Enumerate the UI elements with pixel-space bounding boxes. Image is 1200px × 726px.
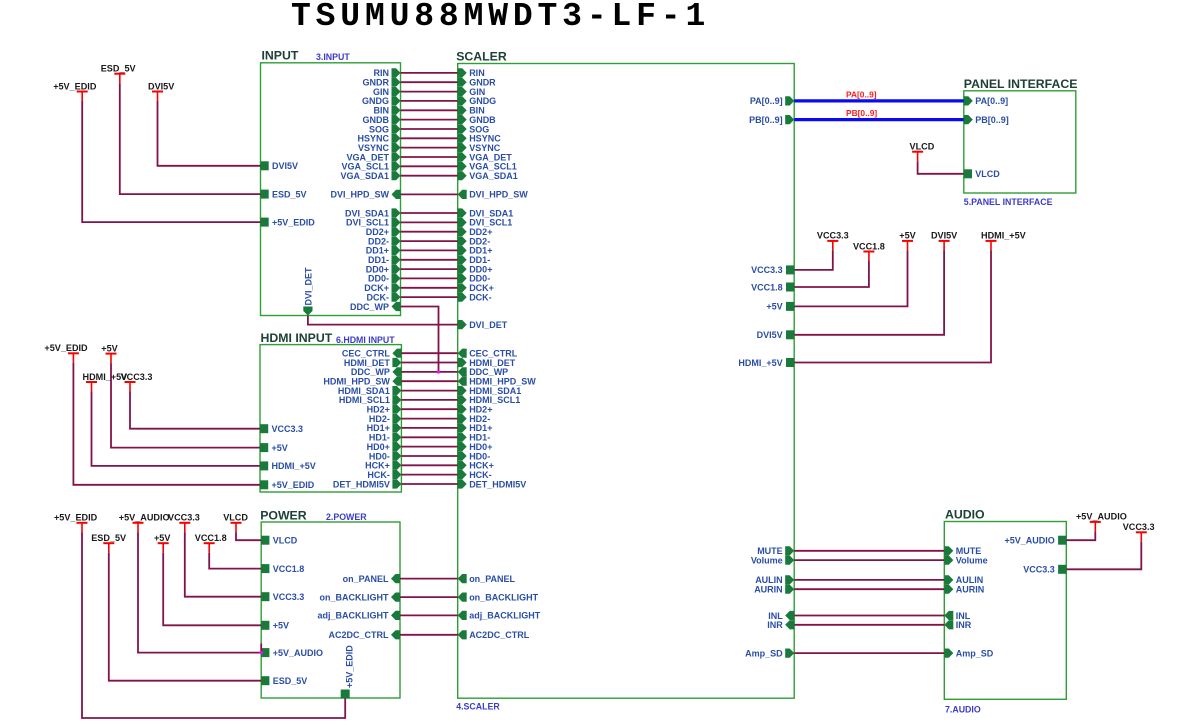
sheet entry on_BACKLIGHT (POWER right) [320, 592, 401, 602]
sheet entry VGA_DET (INPUT right) [346, 152, 400, 162]
svg-text:adj_BACKLIGHT: adj_BACKLIGHT [317, 611, 389, 621]
svg-text:TSUMU88MWDT3-LF-1: TSUMU88MWDT3-LF-1 [291, 0, 710, 35]
svg-text:ESD_5V: ESD_5V [101, 64, 136, 74]
sheet entry DET_HDMI5V (SCALER left) [458, 479, 527, 489]
sheet entry DD1- (SCALER left) [458, 255, 491, 265]
sheet entry DDC_WP (SCALER left) [458, 367, 509, 377]
sheet entry Volume (AUDIO left) [944, 555, 987, 565]
svg-text:+5V_EDID: +5V_EDID [53, 81, 97, 91]
wire DVI_SCL1 [401, 221, 458, 223]
wire VLCD to POWER [236, 532, 261, 540]
wire DVI5V to INPUT [158, 101, 261, 166]
svg-text:ESD_5V: ESD_5V [91, 533, 126, 543]
sheet entry VGA_SDA1 (SCALER left) [458, 171, 518, 181]
sheet entry Amp_SD (SCALER right) [745, 648, 794, 658]
wire HD1+ [401, 427, 457, 429]
svg-text:+5V_AUDIO: +5V_AUDIO [119, 513, 170, 523]
sheet entry AULIN (SCALER right) [755, 575, 794, 585]
svg-text:DVI5V: DVI5V [931, 231, 957, 241]
sheet entry on_BACKLIGHT (SCALER left) [458, 592, 539, 602]
power port DVI5V [148, 81, 174, 101]
sheet entry INL (SCALER right) [768, 611, 794, 621]
sheet entry HD1- (SCALER left) [458, 433, 491, 443]
bus PA[0..9] [794, 99, 964, 102]
wire INR [794, 624, 944, 626]
wire AULIN [794, 579, 944, 581]
wire DCK- [401, 296, 458, 298]
sheet entry RIN (INPUT right) [374, 68, 401, 78]
svg-text:VGA_SDA1: VGA_SDA1 [469, 171, 518, 181]
sheet entry VSYNC (INPUT right) [358, 143, 401, 153]
svg-text:Amp_SD: Amp_SD [745, 648, 783, 658]
sheet entry HDMI_HPD_SW (HDMI INPUT right) [323, 377, 401, 387]
sheet entry +5V (SCALER right) [766, 302, 794, 312]
svg-text:SCALER: SCALER [456, 49, 507, 63]
sheet entry VSYNC (SCALER left) [458, 143, 501, 153]
junction DDC_WP node [437, 370, 440, 373]
sheet symbol AUDIO (7.AUDIO) [944, 507, 1066, 714]
wire VCC1.8 to POWER [209, 553, 261, 569]
junction +5V_AUDIO node [260, 651, 263, 654]
sheet entry VGA_SCL1 (SCALER left) [458, 162, 517, 172]
sheet entry HCK+ (HDMI INPUT right) [365, 461, 401, 471]
power port VLCD [223, 513, 248, 533]
svg-text:+5V_AUDIO: +5V_AUDIO [1076, 512, 1127, 522]
power port VLCD [910, 142, 935, 162]
sheet entry DVI_SDA1 (SCALER left) [458, 208, 514, 218]
sheet entry HDMI_DET (SCALER left) [458, 358, 516, 368]
svg-text:HDMI_+5V: HDMI_+5V [272, 461, 316, 471]
wire HDMI_HPD_SW [401, 380, 457, 382]
sheet symbol HDMI INPUT (6.HDMI INPUT) [260, 331, 401, 492]
svg-text:+5V: +5V [101, 343, 117, 353]
svg-text:+5V: +5V [272, 443, 288, 453]
sheet entry INR (AUDIO left) [944, 620, 972, 630]
svg-text:PANEL INTERFACE: PANEL INTERFACE [964, 77, 1078, 91]
sheet entry VCC1.8 (SCALER right) [751, 282, 794, 292]
sheet entry MUTE (SCALER right) [757, 546, 794, 556]
sheet entry GIN (SCALER left) [458, 87, 486, 97]
wire HCK- [401, 474, 457, 476]
wire DD0+ [401, 268, 458, 270]
wire HD0- [401, 455, 457, 457]
sheet entry +5V (HDMI INPUT left) [260, 443, 288, 453]
wire Amp_SD [794, 652, 944, 654]
sheet entry +5V_EDID (HDMI INPUT left) [260, 480, 315, 490]
svg-text:+5V: +5V [273, 621, 289, 631]
sheet entry HD2+ (HDMI INPUT right) [367, 405, 402, 415]
svg-text:2.POWER: 2.POWER [326, 512, 367, 522]
sheet entry MUTE (AUDIO left) [944, 546, 981, 556]
wire DVI_HPD_SW [401, 193, 458, 195]
sheet entry HD0- (SCALER left) [458, 451, 491, 461]
sheet entry DVI_HPD_SW (SCALER left) [458, 190, 529, 200]
sheet entry DET_HDMI5V (HDMI INPUT right) [333, 479, 402, 489]
svg-text:+5V_AUDIO: +5V_AUDIO [273, 648, 323, 658]
sheet entry DD1- (INPUT right) [368, 255, 401, 265]
sheet entry DD2+ (SCALER left) [458, 227, 493, 237]
svg-text:+5V_EDID: +5V_EDID [345, 645, 355, 688]
sheet entry VGA_DET (SCALER left) [458, 152, 513, 162]
sheet entry DD2- (INPUT right) [368, 236, 401, 246]
sheet entry AULIN (AUDIO left) [944, 575, 983, 585]
svg-text:VCC3.3: VCC3.3 [751, 265, 783, 275]
wire VGA_SCL1 [401, 165, 458, 167]
sheet entry DCK+ (INPUT right) [364, 283, 400, 293]
sheet entry VGA_SDA1 (INPUT right) [340, 171, 400, 181]
power port VCC3.3 [1123, 522, 1155, 542]
sheet entry BIN (INPUT right) [374, 106, 401, 116]
wire +5V_EDID to POWER bottom [82, 532, 345, 718]
svg-text:on_PANEL: on_PANEL [469, 574, 515, 584]
wire MUTE [794, 550, 944, 552]
wire DD2+ [401, 231, 458, 233]
svg-text:PB[0..9]: PB[0..9] [846, 108, 877, 118]
sheet entry HCK- (SCALER left) [458, 470, 492, 480]
sheet entry DVI_SCL1 (SCALER left) [458, 218, 513, 228]
sheet entry AC2DC_CTRL (POWER right) [328, 630, 400, 640]
sheet entry DVI5V (INPUT left) [261, 161, 299, 171]
svg-text:5.PANEL INTERFACE: 5.PANEL INTERFACE [964, 197, 1053, 207]
sheet entry HD0+ (HDMI INPUT right) [367, 442, 402, 452]
svg-text:PB[0..9]: PB[0..9] [749, 115, 783, 125]
wire DD1- [401, 259, 458, 261]
svg-text:VGA_SDA1: VGA_SDA1 [340, 171, 389, 181]
wire HDMI_DET [401, 362, 457, 364]
svg-text:VCC1.8: VCC1.8 [751, 282, 783, 292]
wire GNDR [401, 81, 458, 83]
sheet entry HDMI_SDA1 (HDMI INPUT right) [338, 386, 402, 396]
sheet entry VLCD (POWER left) [261, 536, 298, 546]
svg-text:AURIN: AURIN [956, 585, 985, 595]
svg-text:4.SCALER: 4.SCALER [456, 702, 500, 712]
sheet entry HD2+ (SCALER left) [458, 405, 493, 415]
svg-text:DCK-: DCK- [469, 292, 492, 302]
sheet entry HDMI_+5V (HDMI INPUT left) [260, 461, 316, 471]
wire DVI_SDA1 [401, 212, 458, 214]
svg-text:on_BACKLIGHT: on_BACKLIGHT [469, 592, 538, 602]
sheet entry INR (SCALER right) [767, 620, 794, 630]
sheet entry HCK+ (SCALER left) [458, 461, 494, 471]
sheet entry DD0+ (SCALER left) [458, 264, 493, 274]
svg-text:+5V: +5V [154, 533, 170, 543]
sheet entry DVI_SDA1 (INPUT right) [345, 208, 401, 218]
sheet entry VCC3.3 (SCALER right) [751, 265, 794, 275]
svg-text:VLCD: VLCD [910, 142, 935, 152]
svg-text:Amp_SD: Amp_SD [956, 648, 994, 658]
svg-text:on_BACKLIGHT: on_BACKLIGHT [320, 592, 389, 602]
wire DD0- [401, 277, 458, 279]
sheet entry Volume (SCALER right) [751, 555, 794, 565]
svg-text:7.AUDIO: 7.AUDIO [945, 704, 981, 714]
sheet entry DCK- (SCALER left) [458, 292, 492, 302]
sheet entry DD2- (SCALER left) [458, 236, 491, 246]
wire +5V from SCALER [794, 250, 907, 306]
power port VCC3.3 [121, 372, 153, 392]
wire DD1+ [401, 249, 458, 251]
sheet entry ESD_5V (POWER left) [261, 676, 307, 686]
sheet entry HSYNC (INPUT right) [357, 134, 400, 144]
sheet entry AURIN (AUDIO left) [944, 585, 984, 595]
sheet entry PA[0..9] (SCALER right) [750, 96, 794, 106]
sheet entry DD0- (INPUT right) [368, 274, 401, 284]
wire DCK+ [401, 287, 458, 289]
wire stub above +5V_AUDIO pin [260, 644, 262, 653]
sheet entry HDMI_SCL1 (SCALER left) [458, 395, 521, 405]
svg-text:VLCD: VLCD [975, 169, 1000, 179]
wire HD2- [401, 418, 457, 420]
sheet entry DVI_DET (SCALER left) [458, 320, 508, 330]
wire HDMI_SCL1 [401, 399, 457, 401]
svg-text:INR: INR [956, 620, 972, 630]
sheet entry VCC3.3 (AUDIO right) [1023, 565, 1066, 575]
sheet entry SOG (SCALER left) [458, 124, 490, 134]
svg-text:+5V_AUDIO: +5V_AUDIO [1005, 536, 1055, 546]
sheet entry SOG (INPUT right) [369, 124, 401, 134]
wire VCC3.3 to HDMI INPUT [130, 392, 260, 429]
sheet entry HD1- (HDMI INPUT right) [369, 433, 402, 443]
power port VCC1.8 [853, 241, 885, 261]
wire DVI_DET [308, 316, 458, 325]
sheet entry DD0- (SCALER left) [458, 274, 491, 284]
svg-text:ESD_5V: ESD_5V [272, 189, 307, 199]
wire on_BACKLIGHT [400, 596, 458, 598]
power port ESD_5V [101, 64, 136, 84]
sheet entry RIN (SCALER left) [458, 68, 485, 78]
svg-text:VCC1.8: VCC1.8 [273, 564, 305, 574]
svg-text:ESD_5V: ESD_5V [273, 676, 308, 686]
wire AURIN [794, 588, 944, 590]
wire HSYNC [401, 137, 458, 139]
sheet entry ESD_5V (INPUT left) [261, 189, 307, 199]
sheet entry GIN (INPUT right) [373, 87, 401, 97]
sheet entry adj_BACKLIGHT (SCALER left) [458, 611, 541, 621]
svg-text:DVI_DET: DVI_DET [469, 320, 508, 330]
svg-text:VCC3.3: VCC3.3 [1123, 522, 1155, 532]
sheet entry HD2- (SCALER left) [458, 414, 491, 424]
wire VGA_DET [401, 156, 458, 158]
sheet entry GNDR (INPUT right) [363, 78, 401, 88]
sheet entry +5V_EDID (POWER bottom) [341, 645, 355, 699]
sheet entry BIN (SCALER left) [458, 106, 485, 116]
wire VCC3.3 from SCALER [794, 250, 833, 270]
wire adj_BACKLIGHT [400, 614, 458, 616]
sheet entry Amp_SD (AUDIO left) [944, 648, 994, 658]
wire HDMI_+5V from SCALER [794, 250, 991, 362]
sheet symbol INPUT (3.INPUT) [261, 49, 401, 316]
sheet entry GNDR (SCALER left) [458, 78, 496, 88]
sheet entry HDMI_+5V (SCALER right) [738, 358, 794, 368]
power port +5V_EDID [44, 343, 88, 363]
svg-text:VLCD: VLCD [273, 536, 298, 546]
sheet entry adj_BACKLIGHT (POWER right) [317, 611, 400, 621]
sheet entry +5V_EDID (INPUT left) [261, 217, 316, 227]
sheet entry DD1+ (SCALER left) [458, 246, 493, 256]
sheet entry VCC1.8 (POWER left) [261, 564, 304, 574]
wire VGA_SDA1 [401, 175, 458, 177]
sheet entry VCC3.3 (POWER left) [261, 592, 304, 602]
svg-text:AURIN: AURIN [754, 585, 783, 595]
svg-text:on_PANEL: on_PANEL [343, 574, 389, 584]
wire AC2DC_CTRL [400, 634, 458, 636]
wire VSYNC [401, 147, 458, 149]
sheet entry VGA_SCL1 (INPUT right) [341, 162, 400, 172]
wire HDMI_SDA1 [401, 390, 457, 392]
sheet entry DD1+ (INPUT right) [366, 246, 401, 256]
svg-text:DVI5V: DVI5V [272, 161, 298, 171]
wire VCC3.3 to POWER [185, 532, 261, 596]
sheet entry GNDB (SCALER left) [458, 115, 496, 125]
power port +5V_EDID [54, 513, 98, 533]
wire SOG [401, 128, 458, 130]
wire ESD_5V to POWER [109, 553, 261, 681]
wire GNDG [401, 100, 458, 102]
svg-text:6.HDMI INPUT: 6.HDMI INPUT [336, 335, 395, 345]
sheet entry PA[0..9] (PANEL left) [964, 96, 1008, 106]
power port +5V_EDID [53, 81, 97, 101]
svg-text:VCC3.3: VCC3.3 [272, 424, 304, 434]
svg-text:+5V_EDID: +5V_EDID [272, 217, 315, 227]
svg-text:INPUT: INPUT [262, 49, 299, 63]
wire Volume [794, 559, 944, 561]
svg-text:DDC_WP: DDC_WP [350, 302, 389, 312]
sheet entry GNDG (SCALER left) [458, 96, 497, 106]
svg-text:HDMI_+5V: HDMI_+5V [738, 358, 782, 368]
svg-text:Volume: Volume [751, 555, 783, 565]
sheet entry on_PANEL (SCALER left) [458, 574, 516, 584]
power port +5V [101, 343, 117, 363]
sheet entry DVI_SCL1 (INPUT right) [346, 218, 401, 228]
sheet entry CEC_CTRL (SCALER left) [458, 349, 518, 359]
sheet entry DDC_WP (INPUT right) [350, 302, 401, 312]
svg-text:DVI_HPD_SW: DVI_HPD_SW [330, 190, 389, 200]
wire HDMI_+5V to HDMI INPUT [92, 392, 261, 466]
svg-text:INR: INR [767, 620, 783, 630]
svg-text:HDMI_+5V: HDMI_+5V [981, 231, 1026, 241]
svg-text:VCC3.3: VCC3.3 [168, 513, 200, 523]
power port HDMI_+5V [981, 231, 1026, 251]
svg-text:VCC1.8: VCC1.8 [853, 241, 885, 251]
sheet entry DCK+ (SCALER left) [458, 283, 494, 293]
sheet entry DCK- (INPUT right) [367, 292, 401, 302]
wire GNDB [401, 119, 458, 121]
sheet entry DVI_DET (INPUT bottom) [303, 267, 313, 316]
svg-text:AUDIO: AUDIO [945, 507, 985, 521]
svg-text:3.INPUT: 3.INPUT [316, 52, 350, 62]
svg-text:+5V_EDID: +5V_EDID [54, 513, 98, 523]
wire VCC3.3 from AUDIO [1066, 542, 1141, 570]
wire DET_HDMI5V [401, 483, 457, 485]
power port HDMI_+5V [83, 372, 128, 392]
wire +5V_EDID to HDMI INPUT [73, 363, 260, 485]
sheet entry PB[0..9] (SCALER right) [749, 115, 794, 125]
svg-text:VCC3.3: VCC3.3 [273, 592, 305, 602]
svg-text:VCC3.3: VCC3.3 [121, 372, 153, 382]
sheet entry DDC_WP (HDMI INPUT right) [351, 367, 402, 377]
power port VCC3.3 [817, 231, 849, 251]
wire DDC_WP [401, 371, 457, 373]
sheet entry DVI_HPD_SW (INPUT right) [330, 190, 400, 200]
sheet entry HD1+ (HDMI INPUT right) [367, 423, 402, 433]
svg-text:DVI5V: DVI5V [757, 330, 783, 340]
sheet entry DVI5V (SCALER right) [757, 330, 795, 340]
sheet entry HCK- (HDMI INPUT right) [367, 470, 401, 480]
svg-text:VCC3.3: VCC3.3 [1023, 565, 1055, 575]
svg-text:AC2DC_CTRL: AC2DC_CTRL [328, 630, 389, 640]
svg-text:PB[0..9]: PB[0..9] [975, 115, 1009, 125]
bus PB[0..9] [794, 118, 964, 121]
sheet entry INL (AUDIO left) [944, 611, 971, 621]
svg-text:DVI_DET: DVI_DET [304, 267, 314, 306]
wire RIN [401, 72, 458, 74]
wire ESD_5V to INPUT [120, 83, 261, 194]
wire HD0+ [401, 446, 457, 448]
sheet symbol POWER (2.POWER) [260, 508, 400, 698]
svg-text:DVI5V: DVI5V [148, 81, 174, 91]
wire DD2- [401, 240, 458, 242]
sheet entry +5V (POWER left) [261, 621, 289, 631]
svg-text:Volume: Volume [956, 555, 988, 565]
wire DDC_WP (INPUT to junction) [401, 307, 439, 372]
svg-text:PA[0..9]: PA[0..9] [975, 96, 1008, 106]
sheet symbol PANEL INTERFACE (5.PANEL INTERFACE) [964, 77, 1078, 207]
svg-text:VLCD: VLCD [223, 513, 248, 523]
power port DVI5V [931, 231, 957, 251]
wire +5V to HDMI INPUT [111, 363, 260, 448]
wire BIN [401, 109, 458, 111]
sheet entry HD0+ (SCALER left) [458, 442, 493, 452]
svg-text:VCC1.8: VCC1.8 [195, 533, 227, 543]
sheet entry DD2+ (INPUT right) [366, 227, 401, 237]
svg-text:AC2DC_CTRL: AC2DC_CTRL [469, 630, 530, 640]
svg-text:DVI_HPD_SW: DVI_HPD_SW [469, 190, 528, 200]
power port VCC1.8 [195, 533, 227, 553]
svg-text:+5V: +5V [899, 231, 915, 241]
power port VCC3.3 [168, 513, 200, 533]
sheet entry HD0- (HDMI INPUT right) [369, 451, 402, 461]
sheet entry DD0+ (INPUT right) [366, 264, 401, 274]
power port +5V_AUDIO [1076, 512, 1127, 532]
power port +5V [899, 231, 915, 251]
wire VLCD to PANEL [918, 161, 964, 174]
sheet entry GNDG (INPUT right) [362, 96, 401, 106]
svg-text:PA[0..9]: PA[0..9] [750, 96, 783, 106]
wire +5V to POWER [163, 553, 261, 626]
wire HD2+ [401, 408, 457, 410]
power port ESD_5V [91, 533, 126, 553]
sheet entry GNDB (INPUT right) [363, 115, 401, 125]
sheet symbol SCALER (4.SCALER) [456, 49, 794, 711]
wire GIN [401, 91, 458, 93]
svg-text:DET_HDMI5V: DET_HDMI5V [333, 479, 390, 489]
wire +5V_AUDIO to POWER [138, 532, 261, 652]
sheet entry PB[0..9] (PANEL left) [964, 115, 1009, 125]
power port +5V [154, 533, 170, 553]
wire +5V_EDID to INPUT [82, 101, 260, 222]
svg-text:HDMI INPUT: HDMI INPUT [261, 331, 333, 345]
svg-text:+5V: +5V [766, 302, 782, 312]
sheet entry +5V_AUDIO (AUDIO right) [1005, 536, 1067, 546]
sheet entry HDMI_SDA1 (SCALER left) [458, 386, 522, 396]
sheet entry +5V_AUDIO (POWER left) [261, 648, 323, 658]
sheet entry HDMI_DET (HDMI INPUT right) [344, 358, 402, 368]
sheet entry CEC_CTRL (HDMI INPUT right) [342, 349, 402, 359]
svg-text:+5V_EDID: +5V_EDID [272, 480, 315, 490]
wire DVI5V from SCALER [794, 250, 944, 334]
svg-text:adj_BACKLIGHT: adj_BACKLIGHT [469, 611, 541, 621]
wire INL [794, 615, 944, 617]
sheet entry AURIN (SCALER right) [754, 585, 794, 595]
